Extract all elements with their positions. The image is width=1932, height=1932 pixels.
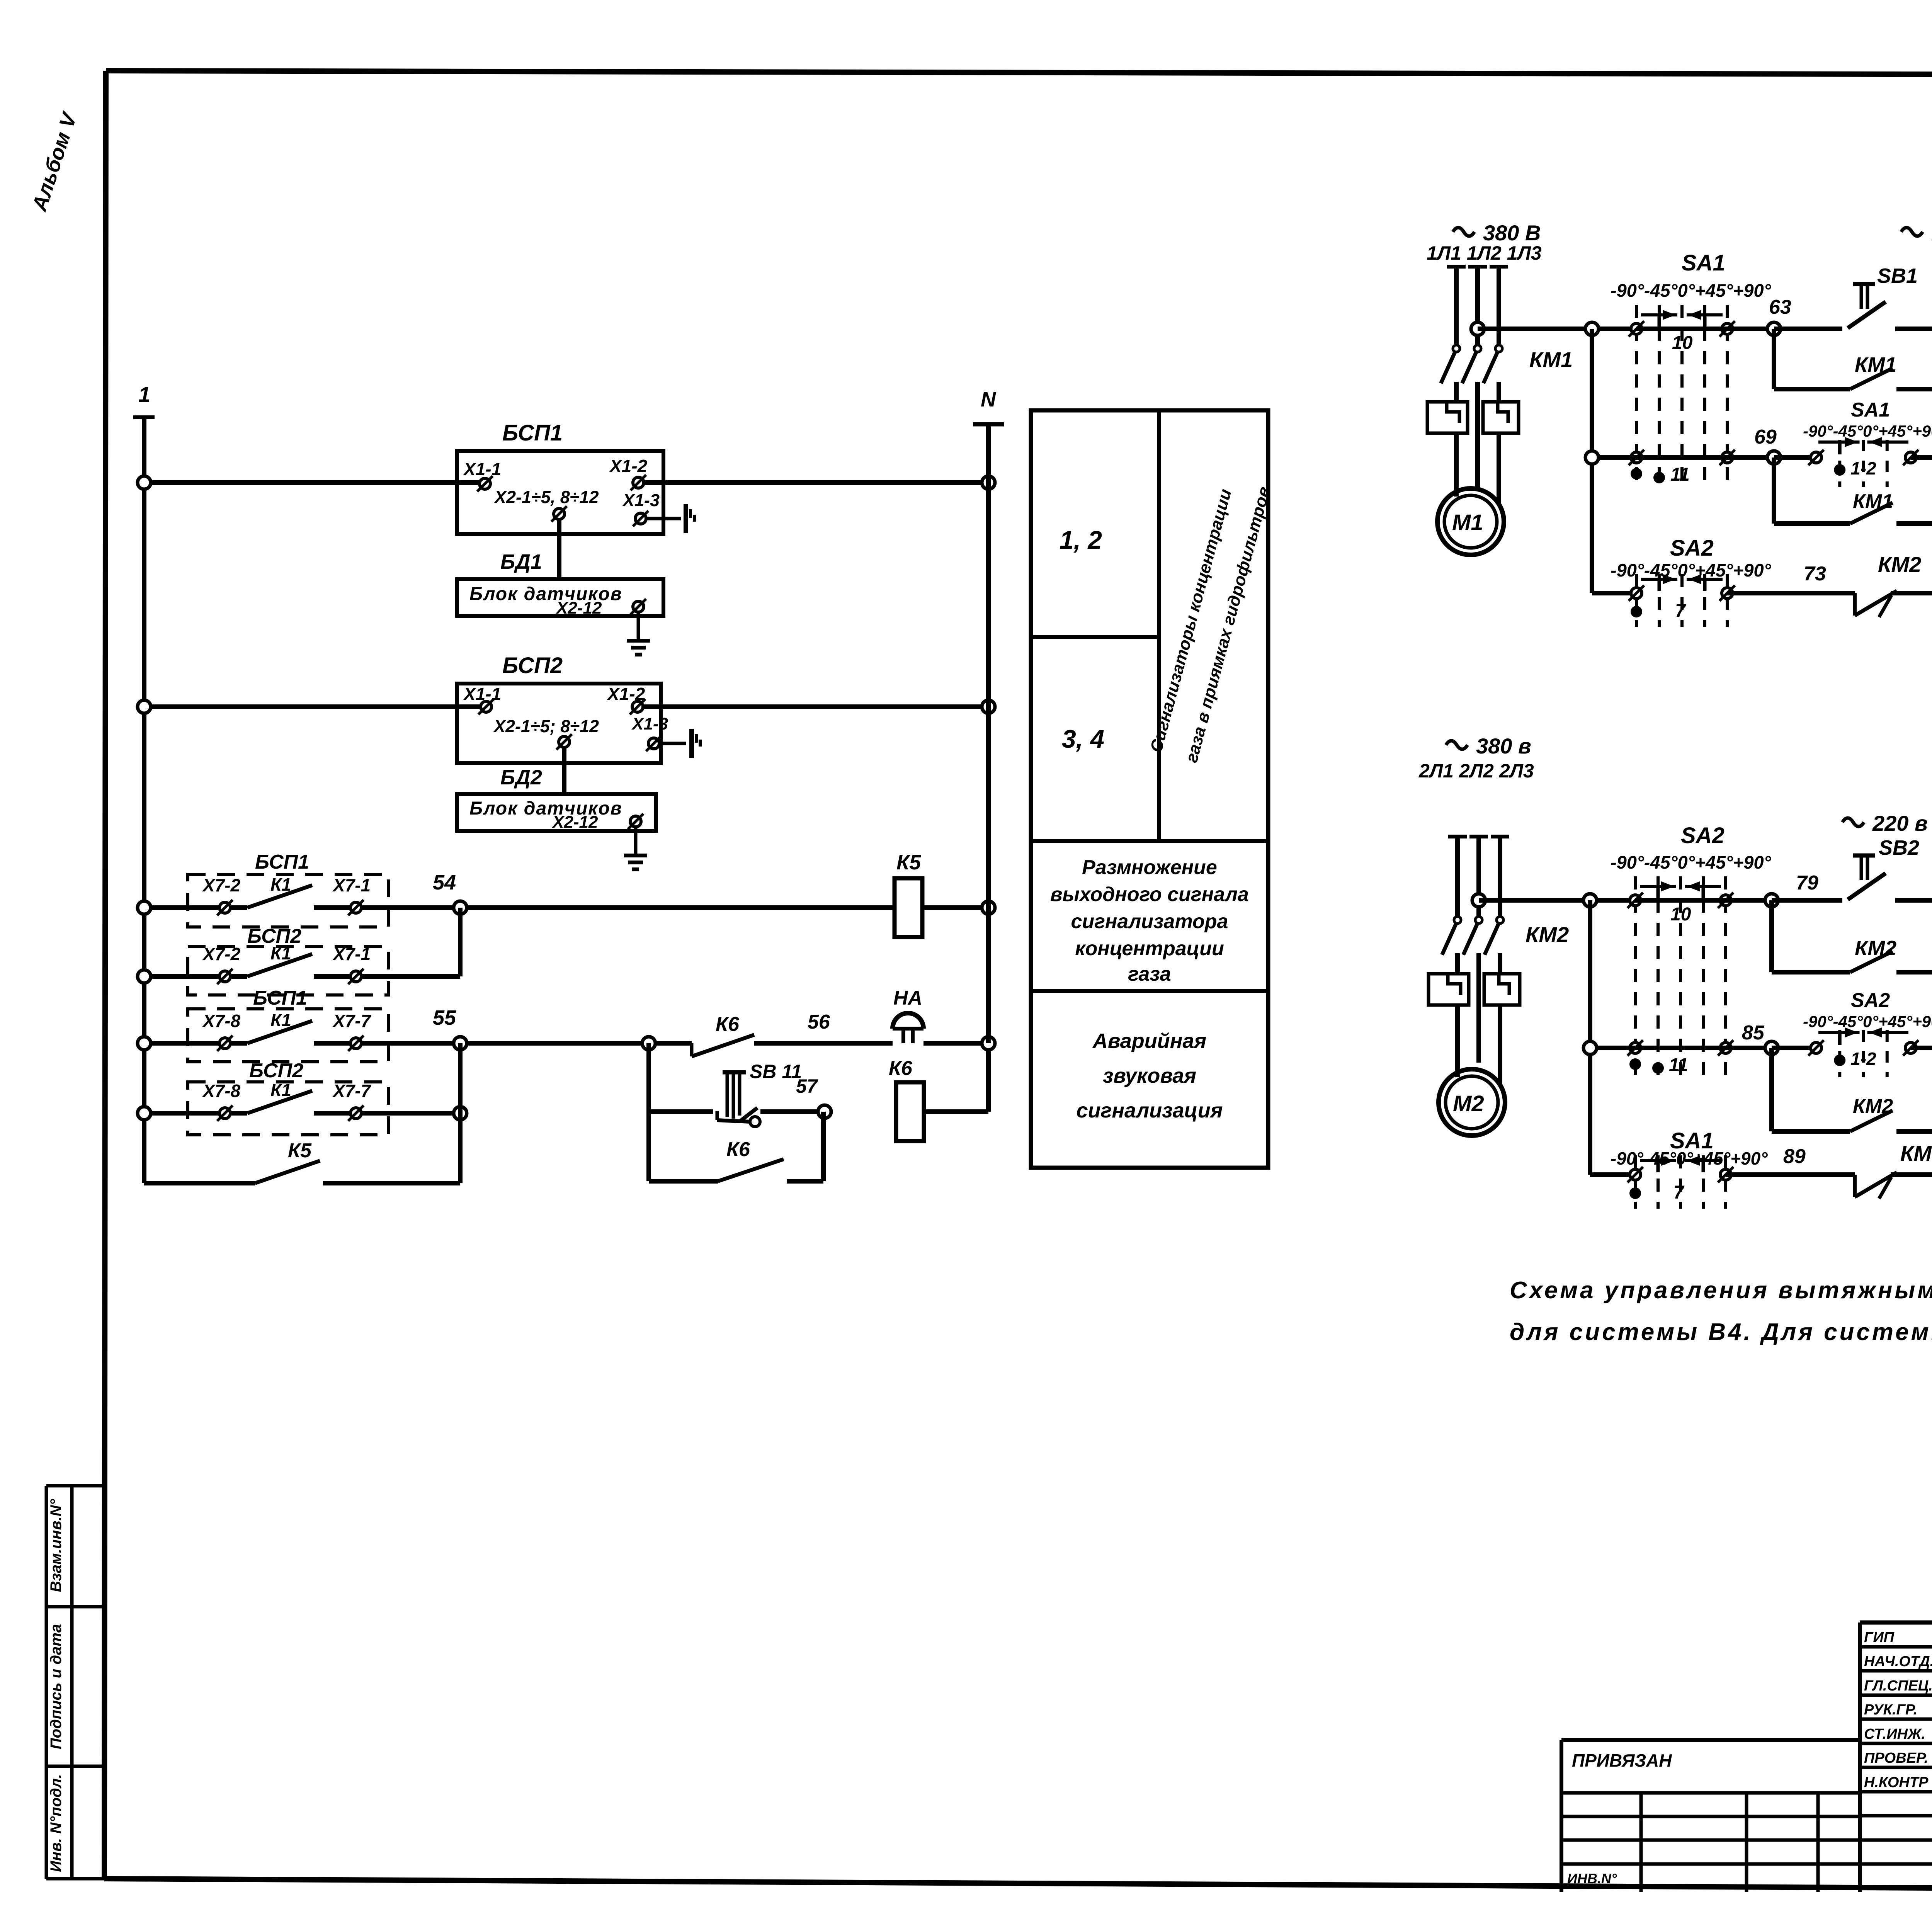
dashed enclosure BSP2 row2 (188, 925, 388, 995)
contact K6 lower (649, 1138, 823, 1181)
phase lines circuit2 middle (1458, 953, 1500, 1063)
wire 1 to N bus (644, 480, 988, 485)
wire 89 (1726, 1145, 1855, 1175)
svg-text:БД1: БД1 (500, 550, 542, 573)
svg-text:73: 73 (1804, 563, 1826, 585)
contact KM1 break c2 (1855, 1141, 1932, 1199)
svg-text:SВ2: SВ2 (1879, 836, 1919, 859)
block BSP1 (457, 420, 663, 534)
vertical 85 drop (1769, 1048, 1774, 1131)
privyazan box (1561, 1740, 1860, 1892)
svg-text:КМ1: КМ1 (1900, 1141, 1932, 1165)
svg-text:БСП2: БСП2 (502, 653, 563, 678)
BSP1 pin X2-1-5 (551, 506, 567, 522)
svg-text:М1: М1 (1452, 510, 1483, 535)
wire row3 c2 segA (1590, 1172, 1635, 1177)
phase lines circuit2 upper (1458, 837, 1500, 917)
note line2 (1510, 1319, 1932, 1345)
svg-text:Размножение: Размножение (1082, 856, 1217, 879)
wire main c1 segD (1895, 327, 1932, 331)
svg-text:БСП1: БСП1 (502, 420, 563, 446)
svg-text:К6: К6 (716, 1013, 740, 1036)
svg-text:7: 7 (1675, 601, 1686, 621)
svg-text:М2: М2 (1453, 1091, 1484, 1116)
svg-text:К5: К5 (288, 1139, 312, 1162)
svg-text:SA2: SA2 (1851, 989, 1890, 1012)
svg-text:N: N (981, 388, 996, 411)
svg-text:X1-3: X1-3 (631, 714, 668, 733)
switch SA2 group2 c2 (1803, 989, 1932, 1077)
wire row3 c2 segB (1891, 1168, 1932, 1181)
svg-text:КМ2: КМ2 (1855, 937, 1896, 960)
svg-text:1, 2: 1, 2 (1060, 526, 1102, 554)
svg-text:63: 63 (1769, 296, 1791, 318)
cell text razmnozhenie (1050, 856, 1249, 985)
phase labels circuit1 (1427, 242, 1542, 264)
middle table frame (1031, 410, 1268, 1168)
svg-text:56: 56 (808, 1011, 830, 1033)
block BD1 (457, 550, 663, 616)
wire row2 c1 segD (1911, 451, 1932, 464)
svg-text:X7-8: X7-8 (202, 1011, 241, 1031)
dashed enclosure BSP1 row55 (188, 987, 388, 1062)
phase lines circuit1 middle (1456, 382, 1499, 491)
svg-text:X7-2: X7-2 (202, 944, 241, 964)
svg-text:85: 85 (1742, 1022, 1765, 1044)
contact KM2 aux2 (1772, 1095, 1932, 1138)
svg-text:Подпись и дата: Подпись и дата (48, 1624, 65, 1749)
svg-text:X7-1: X7-1 (332, 875, 371, 895)
svg-text:SA1: SA1 (1682, 250, 1725, 276)
svg-text:SA1: SA1 (1851, 399, 1890, 421)
dashed enclosure BSP1 row54 (188, 851, 388, 927)
svg-text:НАЧ.ОТД.: НАЧ.ОТД. (1864, 1653, 1932, 1670)
vertical junction to 57 (646, 1043, 651, 1112)
wire row54 left (138, 901, 219, 914)
contact K1 row55 (202, 1010, 372, 1051)
wire main c1 segB (1636, 327, 1774, 331)
phase labels circuit2 (1418, 760, 1534, 782)
svg-text:SB 11: SB 11 (750, 1061, 802, 1082)
node phase tap c2 (1472, 894, 1485, 907)
svg-text:НА: НА (893, 987, 922, 1009)
thermal relay KK2 left (1429, 974, 1469, 1005)
vertical 55 drop (458, 1043, 463, 1183)
contact KM2 break c1 (1855, 552, 1921, 617)
BSP2 chassis ground (692, 729, 700, 758)
block BD2 (457, 766, 656, 831)
wire 55 (361, 1006, 649, 1050)
contact K1 row2 (202, 943, 371, 984)
note line1 (1510, 1277, 1932, 1304)
button SB11 (649, 1061, 818, 1127)
svg-text:X7-7: X7-7 (332, 1081, 372, 1101)
vertical 69 drop (1772, 457, 1776, 524)
wire row3 c1 segA (1592, 591, 1636, 595)
svg-text:-90°-45°0°+45°+90°: -90°-45°0°+45°+90° (1803, 1012, 1932, 1031)
wire BSP2 to BD2 (562, 747, 566, 794)
wire row55 left (138, 1037, 219, 1050)
svg-text:Взам.инв.N°: Взам.инв.N° (48, 1499, 65, 1592)
svg-text:X7-7: X7-7 (332, 1011, 372, 1031)
svg-text:ГИП: ГИП (1864, 1629, 1895, 1646)
BD2 pin X2-12 (628, 814, 643, 829)
label 220V circuit2 (1842, 811, 1928, 835)
svg-text:БСП2: БСП2 (249, 1060, 303, 1082)
middle table hline 1-2/3-4 (1031, 635, 1159, 639)
wire row2 right (361, 908, 460, 976)
phase lines circuit2 lower (1458, 1005, 1500, 1084)
svg-text:1: 1 (138, 382, 150, 406)
node vertical A c2 (1583, 894, 1597, 907)
contactor KM2 main contacts (1442, 917, 1569, 955)
BSP2 pin X1-3 (631, 714, 686, 751)
svg-text:X2-1÷5, 8÷12: X2-1÷5, 8÷12 (493, 487, 599, 507)
BSP1 chassis ground (686, 504, 694, 533)
label 380V circuit2 (1446, 734, 1531, 758)
svg-text:X1-1: X1-1 (463, 459, 501, 479)
BD2 earth ground (624, 827, 647, 869)
svg-text:3, 4: 3, 4 (1062, 724, 1104, 753)
node 79 (1765, 872, 1818, 907)
svg-text:57: 57 (796, 1075, 818, 1097)
svg-text:сигнализация: сигнализация (1077, 1099, 1223, 1122)
left N bus (973, 388, 1004, 1043)
svg-text:БД2: БД2 (500, 766, 542, 789)
svg-text:К6: К6 (726, 1138, 750, 1161)
vertical 79 drop (1769, 900, 1774, 972)
middle table inner vline (1157, 410, 1161, 841)
svg-text:Блок датчиков: Блок датчиков (469, 798, 622, 819)
svg-text:220 в: 220 в (1872, 811, 1928, 835)
dashed enclosure BSP2 row4 (188, 1060, 388, 1135)
wire 54 to bus (922, 901, 995, 914)
BSP2 pin X1-1 (463, 684, 501, 714)
cell text 3-4 (1062, 724, 1104, 753)
vertical A c2 (1588, 900, 1592, 1175)
svg-text:ПРИВЯЗАН: ПРИВЯЗАН (1572, 1750, 1672, 1770)
phase lines circuit1 lower (1456, 433, 1499, 503)
rotated signal text line2 (1182, 485, 1274, 765)
title block staff entries (1864, 1628, 1932, 1791)
wire row2 c1 segB (1636, 455, 1774, 460)
svg-text:10: 10 (1672, 333, 1693, 353)
svg-text:1Л1 1Л2 1Л3: 1Л1 1Л2 1Л3 (1427, 242, 1542, 264)
svg-text:89: 89 (1783, 1145, 1806, 1168)
button SB2 break (1848, 836, 1919, 900)
svg-text:ПРОВЕР.: ПРОВЕР. (1864, 1750, 1928, 1766)
side stamp label vzam (48, 1499, 65, 1592)
svg-text:X7-8: X7-8 (202, 1081, 241, 1101)
wire row2 c2 segA (1583, 1041, 1635, 1054)
cell text 1-2 (1060, 526, 1102, 554)
wire main c2 segD (1895, 898, 1932, 903)
phase terminals circuit1 (1447, 265, 1508, 269)
svg-text:7: 7 (1673, 1182, 1685, 1203)
svg-text:Н.КОНТР: Н.КОНТР (1864, 1774, 1929, 1791)
svg-text:КМ2: КМ2 (1853, 1095, 1893, 1117)
wire row2 c2 segC (1772, 1046, 1816, 1050)
switch SA2 group c1 (1611, 536, 1772, 627)
wire main c1 segA (1478, 327, 1636, 331)
svg-text:БСП1: БСП1 (255, 851, 309, 873)
wire row2 left (138, 970, 219, 983)
node wire1 N bus (982, 476, 995, 489)
svg-text:КМ2: КМ2 (1878, 552, 1921, 577)
svg-text:-90°-45°0°+45°+90°: -90°-45°0°+45°+90° (1803, 422, 1932, 440)
wire 73 (1727, 563, 1855, 593)
switch SA2 group1 c2 (1611, 823, 1772, 1079)
wire row3 c1 seg0 (1727, 591, 1855, 595)
svg-text:10: 10 (1670, 904, 1691, 925)
svg-text:X7-2: X7-2 (202, 875, 241, 895)
svg-text:выходного сигнала: выходного сигнала (1050, 883, 1249, 906)
svg-text:Инв. N°подл.: Инв. N°подл. (48, 1774, 65, 1872)
svg-text:-90°-45°0°+45°+90°: -90°-45°0°+45°+90° (1611, 560, 1772, 580)
BSP1 label X2 (493, 487, 599, 507)
svg-text:54: 54 (433, 871, 456, 894)
switch SA1 group2 c1 (1803, 399, 1932, 487)
svg-text:КМ1: КМ1 (1529, 347, 1573, 372)
svg-text:1-2: 1-2 (1850, 458, 1876, 478)
BSP1 pin X1-3 (622, 490, 681, 526)
svg-text:К5: К5 (896, 851, 921, 874)
node 69 (1754, 426, 1781, 464)
svg-text:КМ1: КМ1 (1855, 353, 1896, 376)
vertical 63 drop (1772, 329, 1776, 389)
middle table hline avar (1031, 989, 1268, 993)
contactor KM1 main contacts (1441, 345, 1573, 383)
relay coil K5 (895, 851, 922, 937)
wire main c2 segC (1772, 898, 1842, 903)
contact KM1 selfhold (1774, 353, 1932, 396)
node 57 (796, 1075, 831, 1118)
svg-text:X2-12: X2-12 (551, 813, 598, 832)
phase lines circuit1 upper (1456, 267, 1499, 345)
svg-text:380 В: 380 В (1483, 221, 1541, 245)
BSP1 pin X1-1 (463, 459, 501, 492)
wire row2 c2 segB (1635, 1046, 1772, 1050)
svg-text:SВ1: SВ1 (1877, 264, 1918, 287)
album label (27, 109, 82, 214)
thermal relay KK1 left (1427, 402, 1468, 433)
BD2 text (469, 798, 622, 832)
BD1 pin X2-12 (631, 599, 646, 614)
svg-text:X7-1: X7-1 (332, 944, 371, 964)
node wire1 left bus (138, 476, 151, 489)
node phase tap c1 (1471, 322, 1484, 335)
wire 57 to bus (924, 1050, 988, 1112)
svg-text:X2-1÷5; 8÷12: X2-1÷5; 8÷12 (493, 716, 599, 736)
button SB1 break (1848, 264, 1918, 328)
vertical A c1 (1590, 329, 1594, 593)
svg-text:БСП1: БСП1 (253, 987, 307, 1009)
svg-text:SA2: SA2 (1670, 536, 1714, 561)
contact K1 row4 (202, 1080, 372, 1121)
side stamp label podpis (48, 1624, 65, 1749)
cell text avariynaya (1077, 1029, 1223, 1122)
wire main c1 segC (1774, 327, 1842, 331)
BD1 text (469, 584, 622, 617)
svg-text:ИНВ.N°: ИНВ.N° (1567, 1871, 1617, 1886)
node 63 (1767, 296, 1791, 335)
svg-text:11: 11 (1670, 464, 1690, 485)
terminal line 1 (133, 382, 155, 483)
svg-text:X1-1: X1-1 (463, 684, 501, 704)
node vertical A c1 (1585, 322, 1599, 335)
wire row4 right (361, 1107, 467, 1120)
label 380V circuit1 (1453, 221, 1541, 245)
svg-text:Аварийная: Аварийная (1092, 1029, 1206, 1053)
svg-text:-90°-45°0°+45°+90°: -90°-45°0°+45°+90° (1611, 280, 1772, 301)
wire BSP1 to BD1 (557, 519, 561, 579)
svg-text:РУК.ГР.: РУК.ГР. (1864, 1702, 1917, 1718)
node wire2 left bus (138, 700, 151, 713)
node wire2 N bus (982, 700, 995, 713)
contact K6 wire56 (654, 1013, 754, 1056)
svg-text:69: 69 (1754, 426, 1777, 448)
contact KM2 selfhold (1772, 937, 1932, 979)
side stamp label inv (48, 1774, 65, 1872)
svg-text:Схема управления вытяжными: Схема управления вытяжными вентиляторами… (1510, 1277, 1932, 1304)
phase terminals circuit2 (1448, 835, 1509, 838)
left bus wire (142, 483, 146, 1183)
bell HA (893, 987, 923, 1043)
node 85 (1742, 1022, 1778, 1054)
vertical K6 to 57 (821, 1112, 826, 1181)
wire main c2 segA (1479, 898, 1635, 903)
BSP2 label X2 (493, 716, 599, 736)
rotated signal text line1 (1146, 487, 1235, 754)
wire row4 left (138, 1107, 219, 1120)
wire row2 c1 segC (1774, 455, 1816, 460)
contact KM1 aux2 (1774, 490, 1932, 530)
wire row3 c1 segB (1891, 587, 1932, 600)
wire 54 (361, 871, 895, 914)
block BSP2 (457, 653, 661, 763)
svg-text:концентрации: концентрации (1075, 937, 1224, 960)
label 220V circuit1 (1901, 221, 1932, 245)
BSP2 pin X1-2 (606, 684, 645, 714)
title block grid (1860, 1622, 1932, 1892)
side stamp boxes (46, 1486, 104, 1879)
wire 1 (144, 480, 480, 485)
wire 56 (754, 1011, 893, 1043)
svg-text:11: 11 (1669, 1055, 1688, 1075)
svg-text:1-2: 1-2 (1850, 1049, 1876, 1069)
svg-text:звуковая: звуковая (1103, 1064, 1196, 1087)
svg-text:X1-3: X1-3 (622, 490, 660, 510)
wire 56 to bus (923, 1037, 995, 1050)
svg-text:380 в: 380 в (1476, 734, 1531, 758)
BSP2 pin X2-1-5 (556, 734, 572, 750)
wire row2 c2 segD (1911, 1041, 1932, 1054)
svg-text:КМ1: КМ1 (1853, 490, 1893, 513)
svg-text:79: 79 (1796, 872, 1818, 894)
contact K1 row54 (202, 874, 371, 915)
svg-text:ГЛ.СПЕЦ.: ГЛ.СПЕЦ. (1864, 1678, 1932, 1694)
wire row2 c1 segA (1585, 451, 1636, 464)
middle table hline razm (1031, 839, 1268, 843)
svg-text:-90°-45°0°+45°+90°: -90°-45°0°+45°+90° (1611, 852, 1772, 872)
svg-text:газа: газа (1128, 963, 1171, 985)
switch SA1 group1 c1 (1611, 250, 1772, 488)
svg-text:2Л1 2Л2 2Л3: 2Л1 2Л2 2Л3 (1418, 760, 1534, 782)
motor M2 (1439, 1069, 1505, 1136)
motor M1 (1437, 488, 1504, 555)
svg-text:X1-2: X1-2 (609, 456, 648, 476)
vertical to K6 contact (646, 1112, 651, 1181)
relay coil K6 (889, 1057, 924, 1141)
svg-text:55: 55 (433, 1006, 456, 1029)
svg-text:СТ.ИНЖ.: СТ.ИНЖ. (1864, 1726, 1925, 1742)
node junction 55 (642, 1037, 655, 1050)
thermal relay KK2 right (1484, 974, 1520, 1005)
svg-text:КМ2: КМ2 (1526, 922, 1569, 947)
thermal relay KK1 right (1483, 402, 1519, 433)
BD1 earth ground (627, 612, 650, 655)
svg-text:SA2: SA2 (1681, 823, 1725, 848)
switch SA1 group c2 (1611, 1128, 1768, 1209)
wire main c2 segB (1635, 898, 1772, 903)
svg-text:для системы В4. Для сис: для системы В4. Для системы В6 схема ана… (1510, 1319, 1932, 1345)
svg-text:К6: К6 (889, 1057, 913, 1080)
BSP1 pin X1-2 (609, 456, 648, 490)
wire 2 to N bus (643, 704, 988, 709)
svg-text:сигнализатора: сигнализатора (1071, 910, 1228, 933)
contact K5 row (144, 1139, 460, 1183)
wire 2 (144, 704, 481, 709)
svg-text:X2-12: X2-12 (555, 599, 602, 617)
